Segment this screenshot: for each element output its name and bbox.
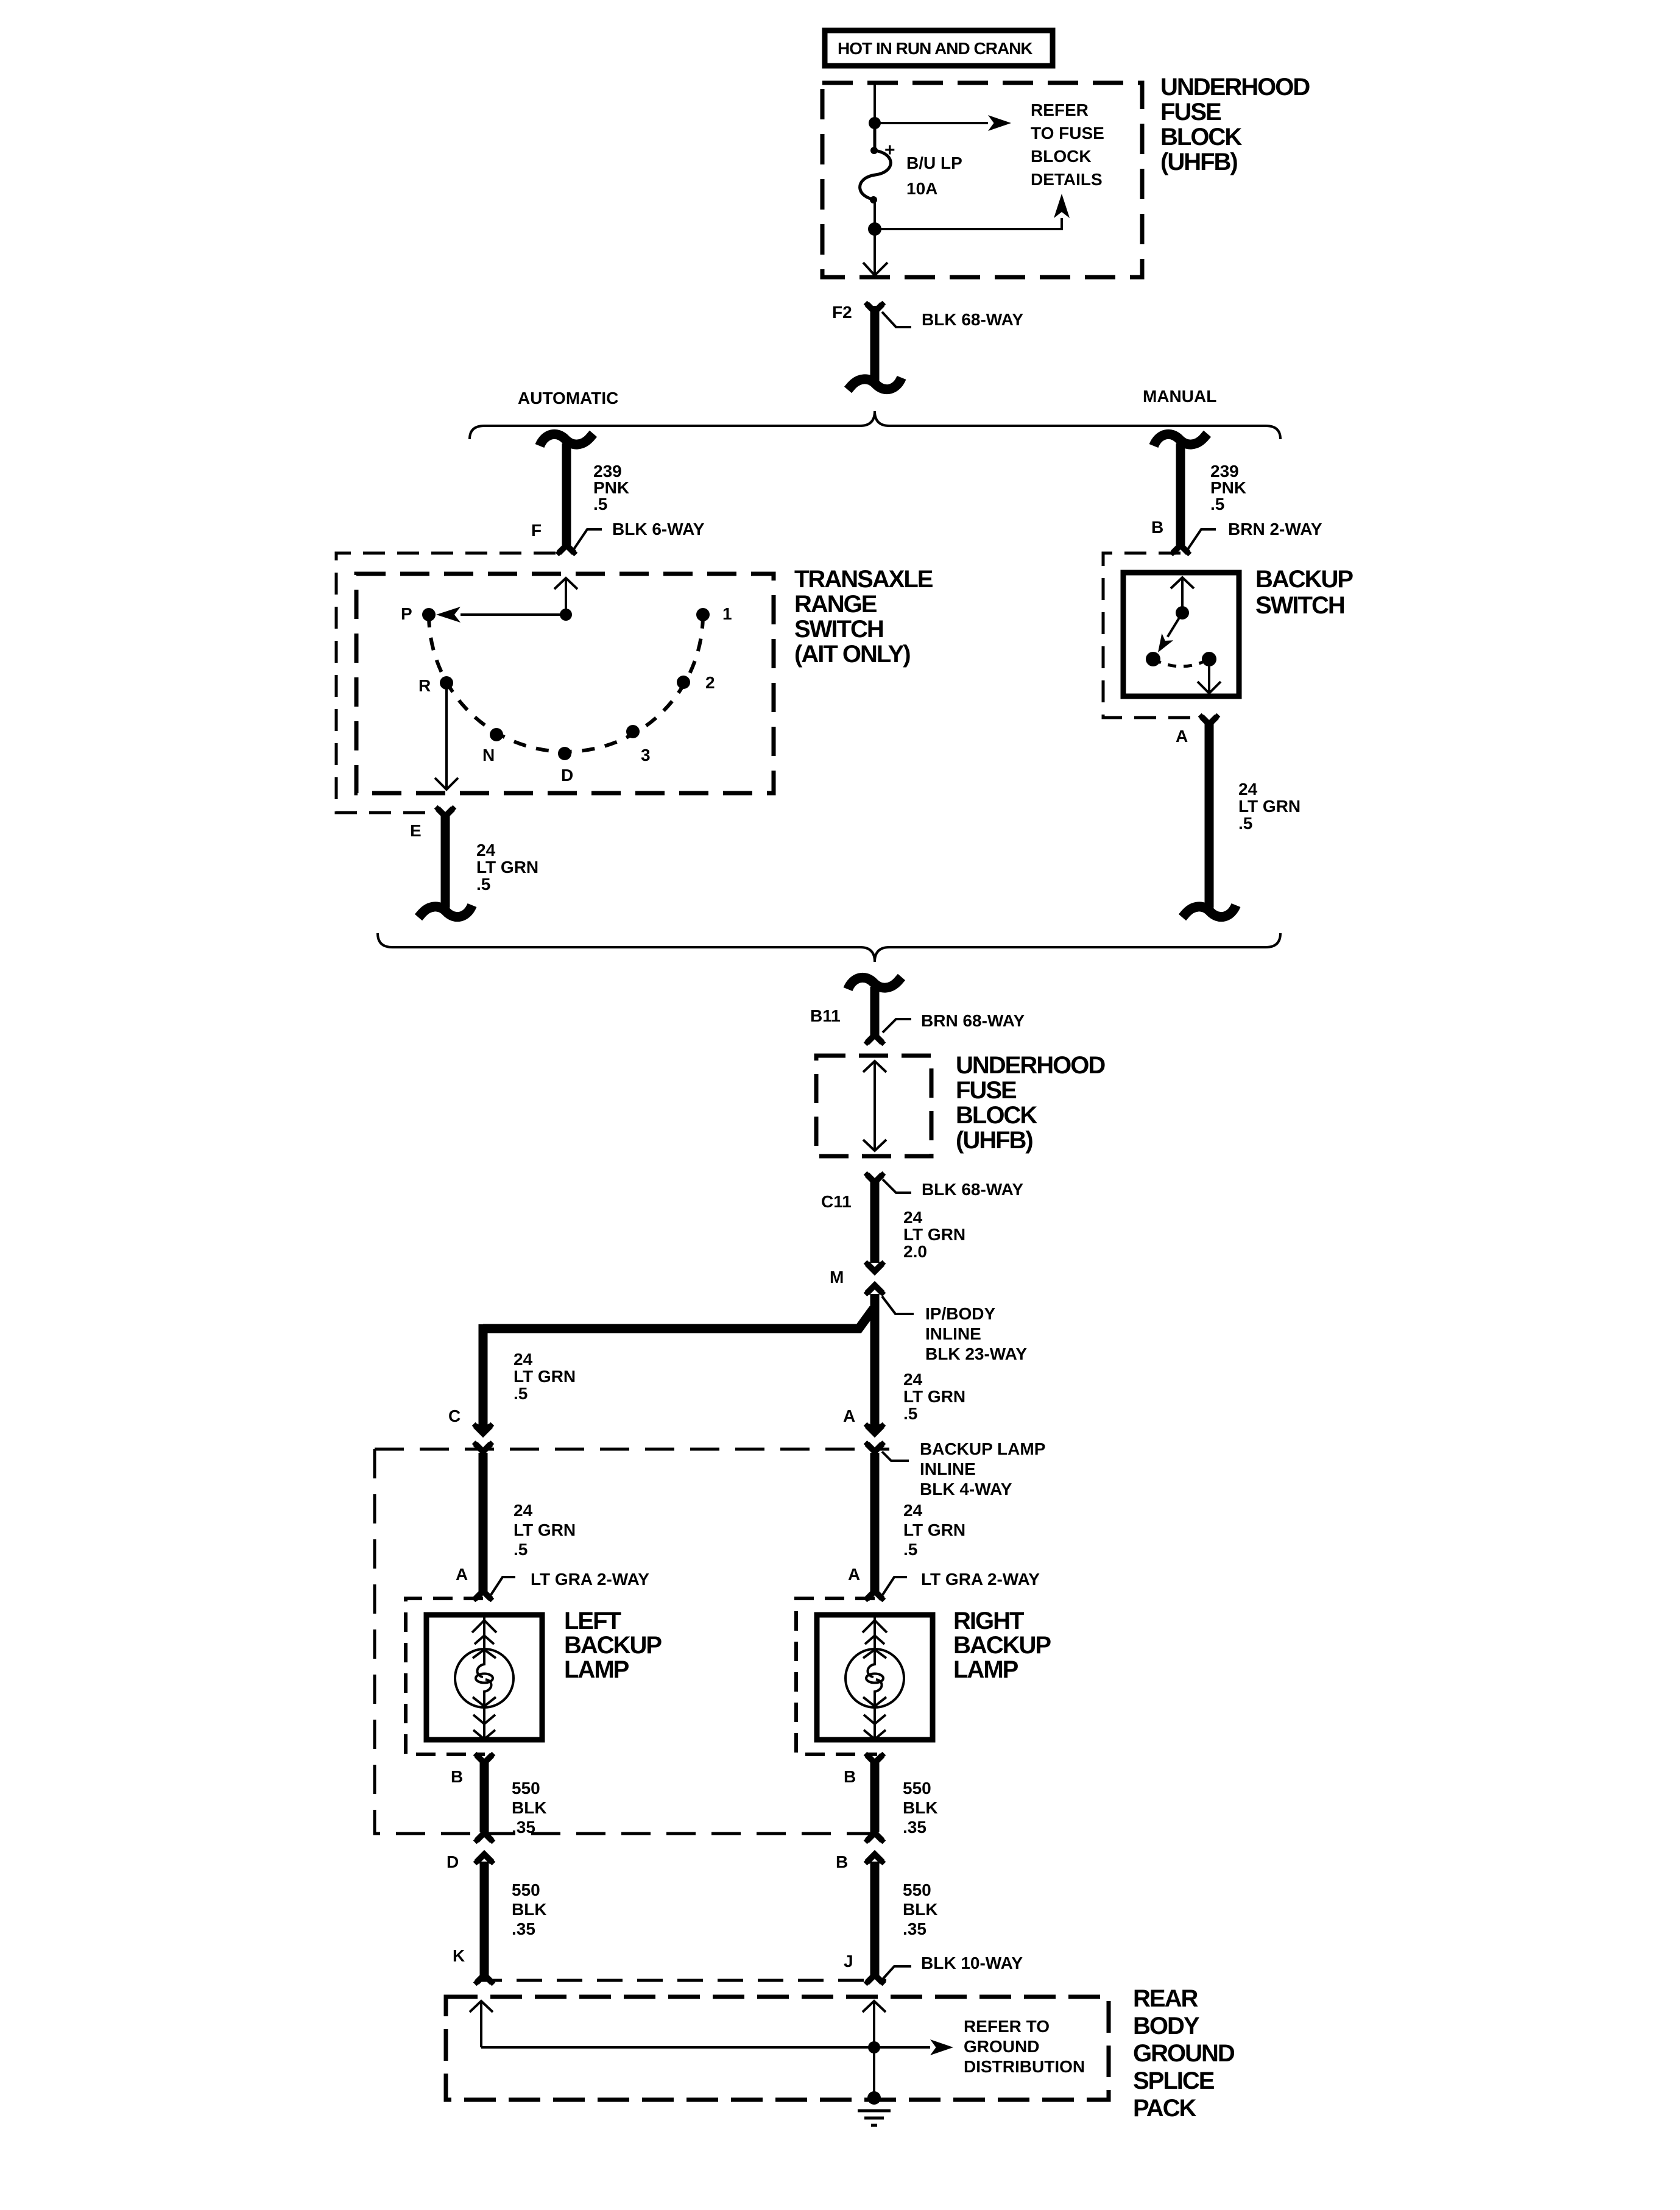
svg-text:LT GRA 2-WAY: LT GRA 2-WAY	[921, 1570, 1040, 1589]
svg-text:BRN 68-WAY: BRN 68-WAY	[921, 1011, 1025, 1030]
splice bus with arrow to ground distribution	[481, 2039, 953, 2055]
svg-text:24: 24	[1238, 780, 1258, 799]
pin B (left lamp)	[451, 1767, 463, 1786]
svg-text:AUTOMATIC: AUTOMATIC	[518, 389, 618, 408]
backup switch dashed throw arc	[1153, 659, 1209, 666]
rear body ground splice pack boundary	[446, 1997, 1109, 2100]
svg-text:(UHFB): (UHFB)	[1160, 149, 1237, 175]
power source box HOT IN RUN AND CRANK	[825, 30, 1053, 66]
svg-text:LT GRN: LT GRN	[903, 1520, 965, 1539]
wire 239 PNK .5 (automatic branch)	[562, 443, 571, 548]
svg-text:A: A	[843, 1407, 855, 1425]
pin D	[446, 1852, 459, 1871]
svg-text:.5: .5	[903, 1540, 917, 1559]
left backup lamp connector boundary	[406, 1598, 485, 1754]
svg-text:.5: .5	[476, 875, 490, 894]
wire 239 PNK .5 (manual branch)	[1176, 443, 1185, 548]
note REFER TO GROUND DISTRIBUTION	[964, 2017, 1085, 2076]
wire 550 BLK .35 (right lower)	[870, 1862, 880, 1977]
svg-text:LT GRN: LT GRN	[903, 1387, 965, 1406]
svg-text:BACKUP: BACKUP	[1255, 566, 1353, 593]
label IP/BODY INLINE BLK 23-WAY	[882, 1296, 1027, 1363]
node ground connection	[867, 2091, 881, 2105]
svg-text:BRN 2-WAY: BRN 2-WAY	[1228, 520, 1322, 538]
svg-text:TRANSAXLE: TRANSAXLE	[794, 566, 933, 593]
dashed rotary contact arc	[429, 615, 703, 752]
backup switch connector boundary	[1103, 553, 1198, 718]
connector flare at inline (right, lower)	[864, 1833, 886, 1844]
svg-text:P: P	[401, 604, 412, 623]
svg-text:SWITCH: SWITCH	[794, 616, 883, 643]
svg-text:A: A	[1176, 727, 1188, 746]
pin B (right lower)	[836, 1852, 848, 1871]
svg-text:C: C	[448, 1407, 461, 1425]
svg-text:C11: C11	[821, 1192, 852, 1211]
backup switch output arrow	[1198, 659, 1221, 693]
male connector arrow at M	[864, 1285, 886, 1296]
wire 550 BLK .35 (right lamp)	[870, 1760, 880, 1832]
svg-text:E: E	[410, 821, 422, 840]
connector flare at B11	[864, 1035, 886, 1046]
svg-text:LT GRN: LT GRN	[514, 1520, 576, 1539]
node fuse input junction	[869, 117, 881, 129]
backup switch common contact	[1176, 606, 1189, 620]
in-line harness connector above B11	[848, 977, 902, 989]
svg-text:.35: .35	[903, 1919, 926, 1938]
svg-text:BLOCK: BLOCK	[1160, 124, 1242, 150]
svg-text:24: 24	[903, 1208, 923, 1227]
svg-text:BODY: BODY	[1133, 2013, 1200, 2039]
value label 239 PNK .5 (manual)	[1210, 462, 1246, 514]
svg-text:2.0: 2.0	[903, 1242, 927, 1261]
svg-text:HOT IN RUN AND CRANK: HOT IN RUN AND CRANK	[838, 39, 1032, 58]
svg-text:F2: F2	[832, 303, 852, 322]
wire 550 BLK .35 (left lower)	[480, 1862, 489, 1977]
svg-text:BLK: BLK	[903, 1798, 938, 1817]
wire left branch down to C	[479, 1324, 488, 1433]
backup switch contact (open)	[1146, 652, 1160, 666]
svg-text:DISTRIBUTION: DISTRIBUTION	[964, 2057, 1085, 2076]
wire hot feed into fuse block	[874, 84, 876, 123]
node splice junction	[868, 2041, 880, 2053]
svg-text:LT GRN: LT GRN	[476, 858, 538, 877]
label 3	[641, 746, 651, 764]
pin E	[410, 821, 422, 840]
label 1	[722, 604, 732, 623]
transaxle range switch outer connector boundary	[336, 553, 556, 813]
connector flare upper half at M	[864, 1260, 886, 1271]
value label 550 BLK .35 (right upper)	[903, 1779, 938, 1837]
brace split to AUTOMATIC / MANUAL branches	[470, 411, 1280, 439]
wire M to branch tee	[870, 1294, 880, 1433]
lamp right backup lamp	[817, 1615, 933, 1740]
label N	[482, 746, 495, 764]
label LT GRA 2-WAY (right)	[883, 1570, 1040, 1595]
svg-text:DETAILS: DETAILS	[1031, 170, 1103, 189]
wire 550 BLK .35 (left lamp)	[480, 1760, 489, 1832]
svg-text:BACKUP LAMP: BACKUP LAMP	[920, 1439, 1045, 1458]
svg-text:.5: .5	[514, 1384, 528, 1403]
svg-text:REFER TO: REFER TO	[964, 2017, 1050, 2036]
label AUTOMATIC	[518, 389, 618, 408]
male connector arrow at D	[473, 1854, 496, 1865]
svg-text:LAMP: LAMP	[953, 1656, 1018, 1683]
svg-text:BACKUP: BACKUP	[564, 1632, 662, 1659]
svg-text:BLOCK: BLOCK	[956, 1102, 1037, 1129]
note REFER TO FUSE BLOCK DETAILS	[1031, 101, 1104, 189]
pin A (left lamp)	[456, 1565, 468, 1584]
wire 24 LT GRN .5 (from pin A)	[1205, 722, 1214, 908]
label BLK 6-WAY	[573, 520, 705, 550]
svg-text:24: 24	[903, 1501, 923, 1520]
value label 24 LT GRN .5 (A)	[1238, 780, 1301, 833]
svg-text:BLOCK: BLOCK	[1031, 147, 1092, 166]
value label B/U LP 10A	[906, 154, 962, 198]
label BLK 68-WAY (C11)	[883, 1179, 1023, 1199]
male connector arrow at C	[472, 1422, 495, 1433]
svg-text:A: A	[456, 1565, 468, 1584]
lamp left backup lamp	[426, 1615, 542, 1740]
label 2	[705, 673, 715, 692]
svg-text:.5: .5	[514, 1540, 528, 1559]
arrow refer to fuse block details (upper)	[875, 115, 1011, 131]
in-line harness connector (automatic branch)	[540, 434, 593, 446]
pin K	[453, 1946, 465, 1965]
svg-text:.5: .5	[593, 495, 607, 514]
wire 24 LT GRN .5 (from pin E)	[441, 814, 450, 908]
svg-text:RANGE: RANGE	[794, 591, 877, 618]
connector flare at K	[473, 1975, 496, 1986]
contact R	[440, 676, 453, 690]
wire to F2 with connector arrow at block edge	[863, 229, 888, 275]
svg-text:BLK 68-WAY: BLK 68-WAY	[922, 1180, 1023, 1199]
svg-text:10A: 10A	[906, 179, 937, 198]
label LT GRA 2-WAY (left)	[491, 1570, 649, 1595]
underhood fuse block UHFB boundary (pass-through)	[816, 1056, 931, 1156]
brace merge of branches	[378, 933, 1280, 962]
svg-text:INLINE: INLINE	[920, 1460, 976, 1478]
svg-text:IP/BODY: IP/BODY	[925, 1304, 995, 1323]
svg-text:2: 2	[705, 673, 715, 692]
wire 24 LT GRN .5 to left backup lamp	[479, 1453, 488, 1592]
svg-text:24: 24	[476, 841, 496, 860]
connector flare at right lamp pin B	[864, 1752, 886, 1763]
svg-text:K: K	[453, 1946, 465, 1965]
component label TRANSAXLE RANGE SWITCH (AIT ONLY)	[794, 566, 933, 668]
svg-text:LEFT: LEFT	[564, 1608, 621, 1634]
component label RIGHT BACKUP LAMP	[953, 1608, 1051, 1683]
pin M	[830, 1268, 844, 1287]
value label 24 LT GRN 2.0	[903, 1208, 965, 1261]
svg-text:B: B	[1151, 518, 1163, 537]
wire B11 BRN 68-WAY	[870, 987, 880, 1037]
svg-text:D: D	[446, 1852, 459, 1871]
in-line harness connector below E	[418, 905, 472, 917]
pin B (backup switch)	[1151, 518, 1163, 537]
svg-text:LT GRA 2-WAY: LT GRA 2-WAY	[531, 1570, 649, 1589]
svg-text:.35: .35	[512, 1919, 535, 1938]
svg-text:550: 550	[512, 1779, 540, 1798]
pin C11	[821, 1192, 852, 1211]
contact D	[558, 747, 571, 760]
svg-text:BLK: BLK	[512, 1798, 547, 1817]
svg-text:N: N	[482, 746, 495, 764]
splice pack entry arrow K	[470, 2001, 493, 2047]
svg-text:B/U LP: B/U LP	[906, 154, 962, 172]
svg-text:LT GRN: LT GRN	[1238, 797, 1301, 816]
connector flare at left lamp pin A	[472, 1591, 495, 1602]
contact R output arrow to pin E	[435, 683, 458, 789]
pin F	[531, 521, 542, 540]
svg-text:(AIT ONLY): (AIT ONLY)	[794, 641, 910, 668]
svg-text:.5: .5	[903, 1404, 917, 1423]
svg-text:(UHFB): (UHFB)	[956, 1127, 1032, 1154]
wire harness dashed line BLK 10-WAY	[476, 1979, 886, 1982]
svg-text:GROUND: GROUND	[1133, 2040, 1235, 2067]
component label UNDERHOOD FUSE BLOCK (UHFB) lower	[956, 1052, 1105, 1154]
svg-text:GROUND: GROUND	[964, 2037, 1039, 2056]
svg-text:B11: B11	[810, 1006, 841, 1025]
svg-text:FUSE: FUSE	[1160, 99, 1221, 125]
svg-text:BLK 68-WAY: BLK 68-WAY	[922, 310, 1023, 329]
component label LEFT BACKUP LAMP	[564, 1608, 662, 1683]
value label 24 LT GRN .5 (E)	[476, 841, 538, 894]
svg-text:J: J	[844, 1952, 853, 1971]
svg-text:24: 24	[514, 1350, 533, 1369]
svg-text:BLK 6-WAY: BLK 6-WAY	[612, 520, 705, 538]
connector flare at C11	[864, 1171, 886, 1182]
male connector arrow at B	[864, 1854, 886, 1865]
backup lamp inline connector boundary BLK 4-WAY	[375, 1449, 889, 1834]
svg-text:M: M	[830, 1268, 844, 1287]
pin F2	[832, 303, 852, 322]
ground symbol	[858, 2111, 891, 2125]
contact 1	[696, 608, 710, 621]
connector flare at right lamp pin A	[864, 1591, 886, 1602]
svg-text:LT GRN: LT GRN	[903, 1225, 965, 1244]
svg-text:BLK 10-WAY: BLK 10-WAY	[921, 1954, 1023, 1972]
svg-text:LAMP: LAMP	[564, 1656, 629, 1683]
svg-text:SWITCH: SWITCH	[1255, 592, 1344, 619]
svg-text:550: 550	[903, 1779, 931, 1798]
connector flare lower half at A	[864, 1441, 886, 1452]
svg-text:B: B	[451, 1767, 463, 1786]
arrow refer to fuse block details (lower)	[875, 194, 1070, 229]
value label 239 PNK .5 (automatic)	[593, 462, 629, 514]
underhood fuse block UHFB boundary (top)	[822, 83, 1142, 277]
connector flare at pin A	[1198, 713, 1221, 724]
in-line harness connector below F2	[848, 378, 902, 390]
label P	[401, 604, 412, 623]
contact 2	[677, 676, 690, 689]
connector flare lower half at C	[472, 1441, 495, 1452]
svg-text:F: F	[531, 521, 542, 540]
svg-text:+: +	[884, 140, 895, 160]
svg-text:BLK: BLK	[512, 1900, 547, 1919]
wire F2 BLK 68-WAY	[870, 306, 880, 381]
label BLK 10-WAY	[883, 1954, 1023, 1979]
node switch common	[560, 609, 572, 621]
contact 3	[626, 725, 640, 738]
contact N	[490, 728, 503, 741]
connector flare at pin E	[434, 805, 457, 816]
svg-text:MANUAL: MANUAL	[1143, 387, 1216, 406]
label BRN 2-WAY	[1187, 520, 1322, 550]
svg-text:RIGHT: RIGHT	[953, 1608, 1024, 1634]
svg-text:INLINE: INLINE	[925, 1324, 981, 1343]
svg-text:REFER: REFER	[1031, 101, 1089, 119]
in-line harness connector (manual branch)	[1154, 434, 1207, 446]
wire splice to ground	[873, 2047, 875, 2095]
component label UNDERHOOD FUSE BLOCK (UHFB)	[1160, 74, 1310, 175]
svg-text:PACK: PACK	[1133, 2095, 1196, 2122]
label D	[561, 766, 573, 785]
pin B (right lamp)	[844, 1767, 856, 1786]
svg-text:FUSE: FUSE	[956, 1077, 1017, 1104]
svg-text:TO FUSE: TO FUSE	[1031, 124, 1104, 143]
splice pack entry arrow J	[863, 2001, 886, 2047]
switch common entry arrow	[554, 578, 577, 615]
value label 24 LT GRN .5 (right lamp)	[903, 1501, 965, 1559]
svg-text:LT GRN: LT GRN	[514, 1367, 576, 1386]
backup switch blade arrow	[1158, 613, 1182, 652]
fuse B/U LP 10A	[860, 123, 895, 203]
svg-text:.5: .5	[1238, 814, 1252, 833]
pin B11	[810, 1006, 841, 1025]
connector F2 wire flare	[864, 301, 886, 312]
svg-text:550: 550	[903, 1880, 931, 1899]
pin A (backup switch)	[1176, 727, 1188, 746]
svg-text:B: B	[836, 1852, 848, 1871]
svg-text:UNDERHOOD: UNDERHOOD	[956, 1052, 1105, 1079]
pass-through arrow inside UHFB	[863, 1061, 886, 1151]
connector flare at inline (left, lower)	[473, 1833, 496, 1844]
svg-text:24: 24	[514, 1501, 533, 1520]
component label REAR BODY GROUND SPLICE PACK	[1133, 1985, 1235, 2122]
pin A (inline)	[843, 1407, 855, 1425]
connector flare at transaxle range switch	[556, 545, 578, 556]
value label 24 LT GRN .5 (left branch)	[514, 1350, 576, 1403]
label BLK 68-WAY (F2)	[882, 310, 1023, 329]
node fuse output junction	[868, 222, 881, 236]
svg-text:1: 1	[722, 604, 732, 623]
value label 550 BLK .35 (right lower)	[903, 1880, 938, 1938]
male connector arrow at A	[864, 1422, 886, 1433]
component label BACKUP SWITCH	[1255, 566, 1353, 619]
pin A (right lamp)	[848, 1565, 860, 1584]
connector flare at backup switch	[1170, 545, 1192, 556]
svg-text:BACKUP: BACKUP	[953, 1632, 1051, 1659]
arrow wiper to contact P	[436, 607, 566, 623]
svg-text:R: R	[418, 676, 431, 695]
svg-text:A: A	[848, 1565, 860, 1584]
svg-text:3: 3	[641, 746, 651, 764]
svg-text:SPLICE: SPLICE	[1133, 2067, 1215, 2094]
svg-text:B: B	[844, 1767, 856, 1786]
backup switch entry arrow	[1171, 577, 1194, 613]
backup switch output contact	[1202, 652, 1216, 666]
svg-text:.35: .35	[512, 1818, 535, 1837]
svg-text:.35: .35	[903, 1818, 926, 1837]
svg-text:D: D	[561, 766, 573, 785]
svg-text:REAR: REAR	[1133, 1985, 1198, 2012]
right backup lamp connector boundary	[796, 1598, 877, 1754]
pin J	[844, 1952, 853, 1971]
value label 24 LT GRN .5 (right branch)	[903, 1370, 965, 1423]
backup switch body	[1123, 573, 1239, 696]
contact P	[422, 608, 436, 621]
svg-text:24: 24	[903, 1370, 923, 1389]
svg-text:550: 550	[512, 1880, 540, 1899]
connector flare at J	[864, 1975, 886, 1986]
svg-text:BLK 4-WAY: BLK 4-WAY	[920, 1480, 1012, 1499]
svg-text:BLK 23-WAY: BLK 23-WAY	[925, 1344, 1027, 1363]
pin C	[448, 1407, 461, 1425]
wire 24 LT GRN .5 to right backup lamp	[870, 1453, 880, 1592]
value label 550 BLK .35 (left upper)	[512, 1779, 547, 1837]
wire 24 LT GRN 2.0 (C11 to M)	[870, 1180, 880, 1263]
svg-text:UNDERHOOD: UNDERHOOD	[1160, 74, 1310, 101]
svg-text:.5: .5	[1210, 495, 1224, 514]
connector flare at left lamp pin B	[473, 1752, 496, 1763]
label MANUAL	[1143, 387, 1216, 406]
label BACKUP LAMP INLINE BLK 4-WAY	[882, 1439, 1045, 1499]
svg-text:BLK: BLK	[903, 1900, 938, 1919]
wire fuse output	[874, 199, 876, 229]
in-line harness connector below A	[1182, 905, 1236, 917]
transaxle range switch inner boundary	[356, 574, 774, 793]
value label 24 LT GRN .5 (left lamp)	[514, 1501, 576, 1559]
value label 550 BLK .35 (left lower)	[512, 1880, 547, 1938]
label BRN 68-WAY	[883, 1011, 1025, 1033]
label R	[418, 676, 431, 695]
